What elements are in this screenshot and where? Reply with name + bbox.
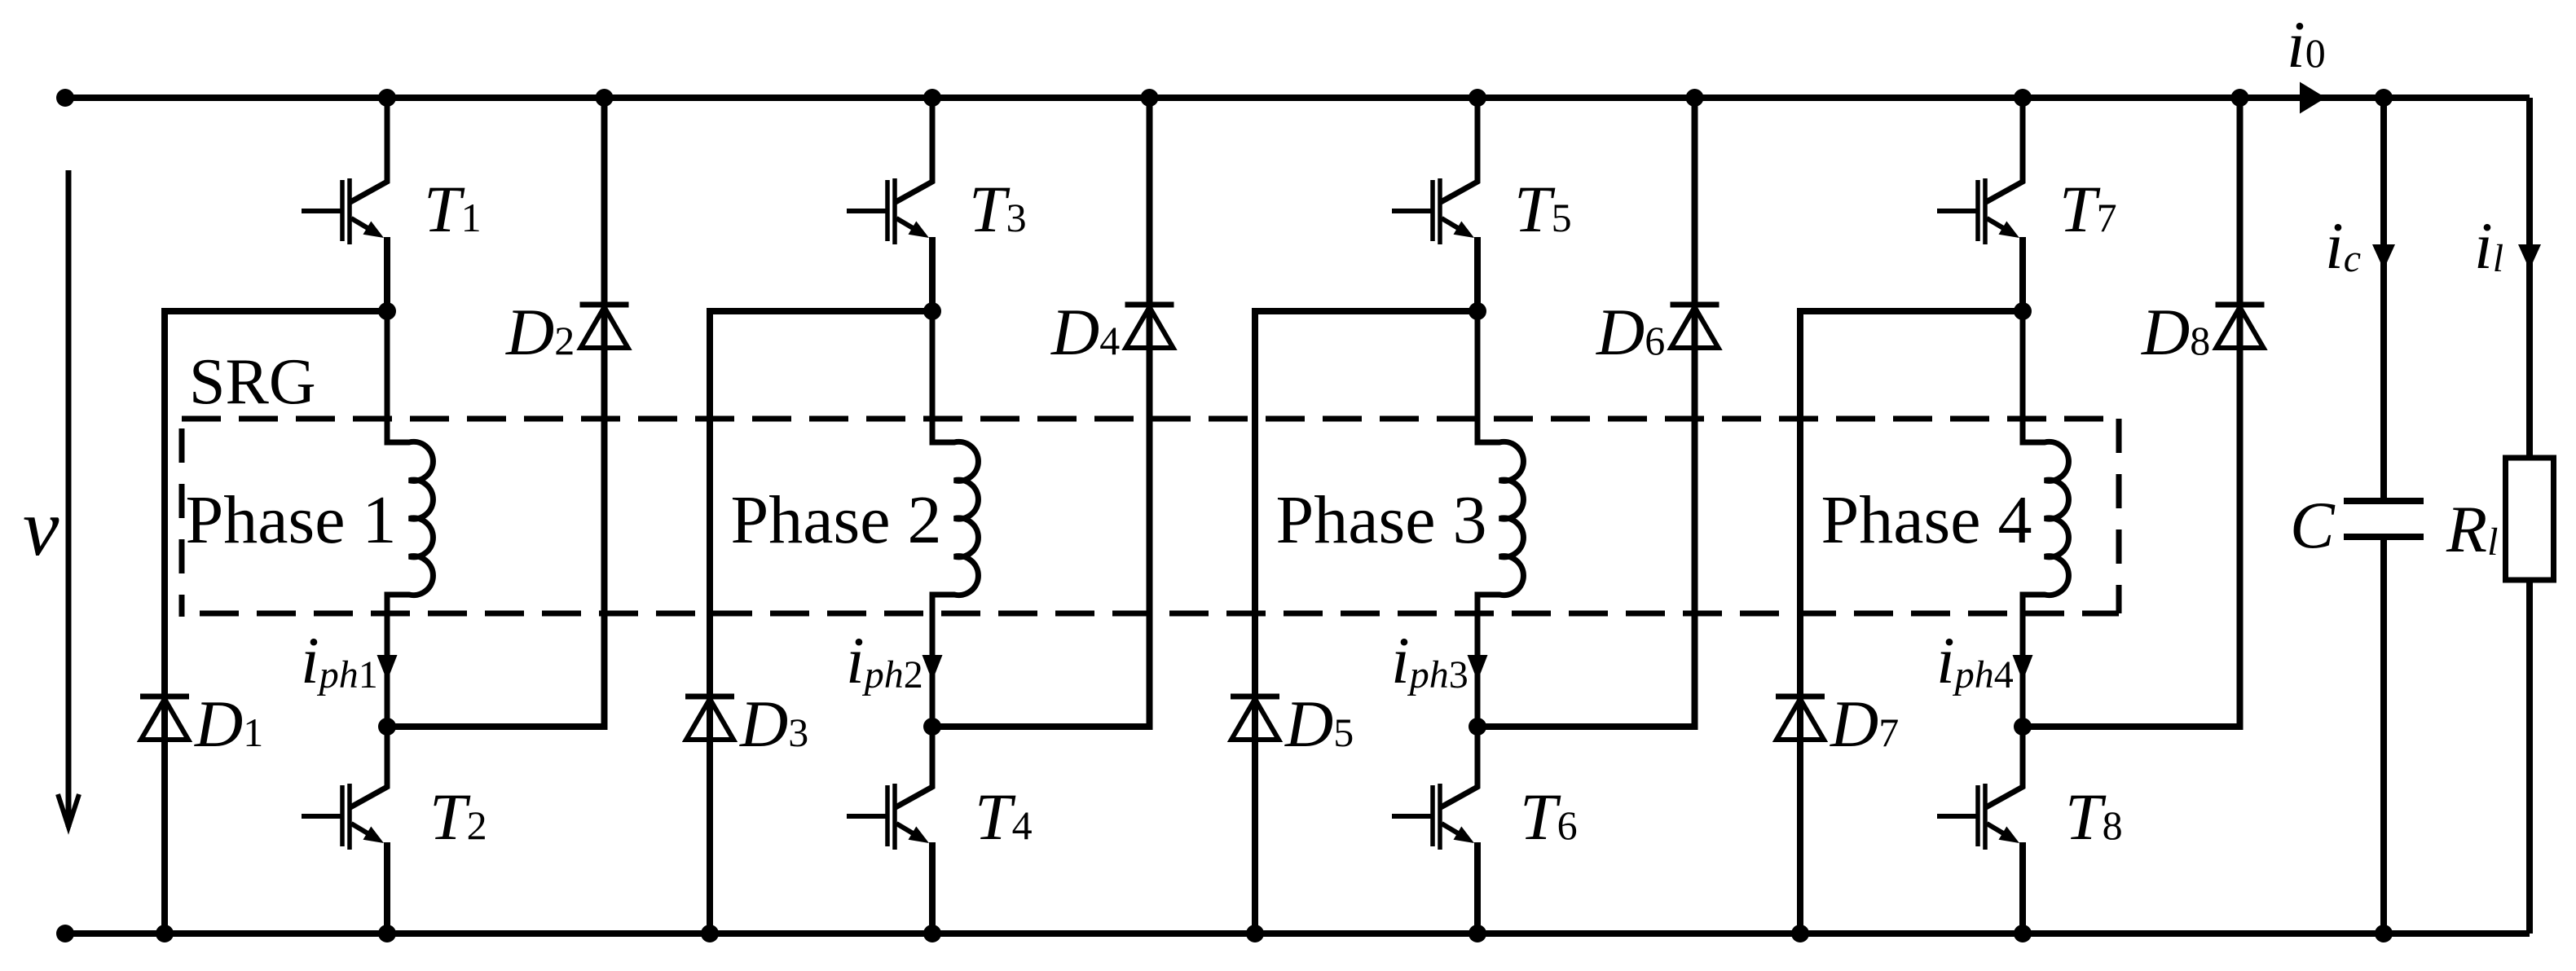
- svg-text:C: C: [2290, 488, 2336, 562]
- wire right branch to D8: [2023, 98, 2240, 727]
- node phase 4 winding bottom: [2014, 718, 2032, 736]
- node bottom rail junction D1: [156, 925, 174, 942]
- wire bottom bus rail: [65, 930, 2530, 937]
- diode D3: [685, 694, 734, 700]
- transistor T7 (IGBT, upper switch phase 4): [1986, 98, 2023, 202]
- wire capacitor branch bottom: [2380, 540, 2387, 934]
- node phase 1 winding top: [378, 302, 396, 320]
- diode D5: [1231, 694, 1279, 700]
- node bottom rail junction D5: [1246, 925, 1264, 942]
- node phase 3 winding top: [1469, 302, 1486, 320]
- node bottom rail junction D3: [701, 925, 719, 942]
- svg-text:Phase 4: Phase 4: [1821, 482, 2032, 558]
- diode D2: [580, 302, 629, 308]
- SRG dashed box left edge: [179, 428, 185, 617]
- transistor T6 (IGBT, lower switch phase 3): [1441, 727, 1477, 807]
- node top rail junction phase 2: [923, 89, 941, 107]
- transistor T5 (IGBT, upper switch phase 3): [1441, 98, 1477, 202]
- node capacitor bottom junction: [2375, 925, 2393, 942]
- node bottom rail junction T6: [1469, 925, 1486, 942]
- node top rail junction phase 3: [1469, 89, 1486, 107]
- transistor T1 (IGBT, upper switch phase 1): [350, 98, 387, 202]
- svg-text:Phase 1: Phase 1: [186, 482, 397, 558]
- current arrow i_ph4: [2013, 655, 2033, 681]
- node top rail junction D2: [596, 89, 614, 107]
- inductor winding Phase 4: [2023, 311, 2068, 727]
- capacitor C: [2344, 498, 2424, 504]
- current arrow i_ph1: [377, 655, 398, 681]
- node top rail junction D4: [1141, 89, 1159, 107]
- current arrow i0 on top rail: [2300, 82, 2326, 114]
- node top rail junction phase 1: [378, 89, 396, 107]
- wire left branch to D7: [1800, 311, 2023, 934]
- resistor R_l: [2506, 458, 2554, 580]
- node phase 2 winding bottom: [923, 718, 941, 736]
- node top rail junction D6: [1686, 89, 1704, 107]
- node capacitor top junction: [2375, 89, 2393, 107]
- inductor winding Phase 2: [932, 311, 978, 727]
- svg-text:Phase 3: Phase 3: [1276, 482, 1487, 558]
- node top rail junction phase 4: [2014, 89, 2032, 107]
- transistor T3 (IGBT, upper switch phase 2): [896, 98, 932, 202]
- wire left branch to D1: [165, 311, 387, 934]
- svg-text:SRG: SRG: [189, 346, 316, 418]
- diode D8: [2216, 302, 2265, 308]
- SRG dashed box right edge: [2116, 419, 2122, 613]
- node phase 3 winding bottom: [1469, 718, 1486, 736]
- transistor T8 (IGBT, lower switch phase 4): [1986, 727, 2023, 807]
- node phase 1 winding bottom: [378, 718, 396, 736]
- wire right branch to D6: [1477, 98, 1695, 727]
- wire right branch to D2: [387, 98, 605, 727]
- diode D6: [1671, 302, 1720, 308]
- wire right branch to D4: [932, 98, 1150, 727]
- SRG dashed box bottom edge: [200, 611, 2119, 617]
- voltage arrow v: [66, 170, 72, 827]
- diode D1: [140, 694, 189, 700]
- node top-left bus endpoint: [56, 89, 74, 107]
- svg-text:Phase 2: Phase 2: [731, 482, 942, 558]
- wire left branch to D5: [1255, 311, 1477, 934]
- current arrow i_l: [2518, 244, 2541, 270]
- node top rail junction D8: [2231, 89, 2249, 107]
- inductor winding Phase 1: [387, 311, 433, 727]
- current arrow i_ph2: [923, 655, 943, 681]
- diode D4: [1125, 302, 1174, 308]
- node bottom rail junction D7: [1791, 925, 1809, 942]
- current arrow i_ph3: [1468, 655, 1488, 681]
- diode D7: [1776, 694, 1825, 700]
- node bottom rail junction T4: [923, 925, 941, 942]
- inductor winding Phase 3: [1477, 311, 1523, 727]
- transistor T4 (IGBT, lower switch phase 2): [896, 727, 932, 807]
- SRG machine dashed box top edge: [182, 416, 2119, 422]
- node phase 4 winding top: [2014, 302, 2032, 320]
- svg-text:v: v: [23, 482, 59, 573]
- node bottom rail junction T8: [2014, 925, 2032, 942]
- node phase 2 winding top: [923, 302, 941, 320]
- current arrow i_c: [2372, 244, 2395, 270]
- wire left branch to D3: [710, 311, 932, 934]
- node bottom rail junction T2: [378, 925, 396, 942]
- node bottom-left bus endpoint: [56, 925, 74, 942]
- wire top bus rail: [65, 94, 2530, 101]
- wire load branch right side: [2526, 98, 2533, 934]
- wire capacitor branch top: [2380, 98, 2387, 498]
- transistor T2 (IGBT, lower switch phase 1): [350, 727, 387, 807]
